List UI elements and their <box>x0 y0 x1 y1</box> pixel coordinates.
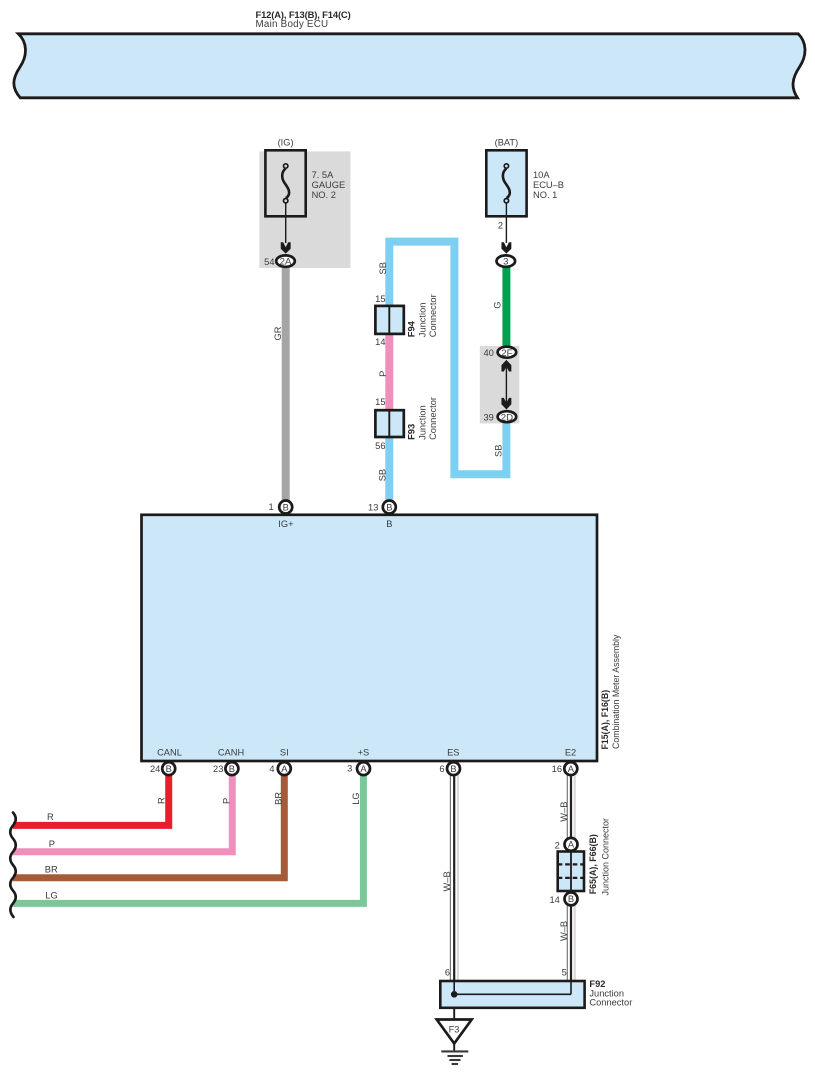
svg-text:GAUGE: GAUGE <box>312 180 346 190</box>
connector 2A pin 54 <box>264 255 295 267</box>
svg-text:P: P <box>222 798 232 804</box>
svg-text:R: R <box>157 797 167 804</box>
pin 6 B ES <box>439 762 460 775</box>
svg-text:B: B <box>229 764 235 774</box>
connector 2D pin 39 <box>483 411 516 423</box>
svg-text:39: 39 <box>483 412 493 422</box>
fuse (IG) gray panel <box>259 151 350 268</box>
ground F3 <box>437 1007 472 1064</box>
wire GR <box>282 265 290 503</box>
svg-text:A: A <box>568 840 575 850</box>
wire W-B from ES <box>442 775 458 994</box>
svg-text:2A: 2A <box>280 257 292 268</box>
svg-text:Junction: Junction <box>418 405 428 440</box>
svg-text:F93: F93 <box>406 424 416 440</box>
svg-text:W–B: W–B <box>559 921 569 941</box>
svg-text:B: B <box>386 519 392 529</box>
svg-text:R: R <box>47 812 54 822</box>
svg-text:5: 5 <box>562 967 567 977</box>
svg-text:SI: SI <box>280 747 289 757</box>
svg-text:E2: E2 <box>565 747 576 757</box>
svg-text:24: 24 <box>150 764 160 774</box>
svg-text:CANL: CANL <box>157 747 182 757</box>
svg-text:BR: BR <box>274 792 284 805</box>
svg-text:LG: LG <box>45 890 57 900</box>
svg-text:W–B: W–B <box>442 871 452 891</box>
svg-text:SB: SB <box>494 445 504 457</box>
svg-text:IG+: IG+ <box>278 519 293 529</box>
svg-text:P: P <box>378 371 388 377</box>
wire R <box>13 775 169 825</box>
svg-text:3: 3 <box>503 257 508 268</box>
svg-text:15: 15 <box>375 397 385 407</box>
svg-text:(BAT): (BAT) <box>495 137 519 147</box>
svg-text:Connector: Connector <box>428 397 438 440</box>
svg-text:A: A <box>360 764 367 774</box>
junction connector F92 <box>440 967 632 1008</box>
bottom pin labels inside box <box>157 747 576 757</box>
wire P bottom <box>13 775 232 852</box>
svg-text:13: 13 <box>368 503 378 513</box>
wire P between F94 and F93 <box>385 332 393 412</box>
svg-text:15: 15 <box>375 294 385 304</box>
svg-text:Combination Meter Assembly: Combination Meter Assembly <box>611 634 621 749</box>
svg-text:4: 4 <box>269 764 274 774</box>
junction connector F65(A) F66(B) <box>549 818 610 905</box>
svg-text:Junction Connector: Junction Connector <box>601 818 611 896</box>
svg-text:2F: 2F <box>501 348 512 359</box>
svg-text:B: B <box>386 502 392 512</box>
fuse (BAT) 10A ECU-B NO.1 <box>486 137 564 243</box>
svg-text:Main Body ECU: Main Body ECU <box>256 19 329 30</box>
svg-text:ES: ES <box>447 747 459 757</box>
svg-text:F65(A), F66(B): F65(A), F66(B) <box>588 834 598 894</box>
svg-text:14: 14 <box>549 895 559 905</box>
svg-text:W–B: W–B <box>559 802 569 822</box>
wire W-B from E2 <box>559 775 575 994</box>
svg-text:2: 2 <box>498 221 503 231</box>
svg-text:10A: 10A <box>533 170 550 180</box>
svg-text:F3: F3 <box>449 1025 460 1035</box>
pin 16 A E2 <box>552 762 578 775</box>
svg-text:P: P <box>49 839 55 849</box>
svg-text:LG: LG <box>351 792 361 804</box>
svg-text:Junction: Junction <box>418 303 428 338</box>
svg-text:CANH: CANH <box>218 747 244 757</box>
svg-text:14: 14 <box>375 337 385 347</box>
arrow into connector 2A <box>281 242 291 253</box>
svg-text:(IG): (IG) <box>278 137 294 147</box>
svg-text:+S: +S <box>358 748 370 758</box>
connector panel 2F/2D gray <box>480 346 520 423</box>
svg-text:6: 6 <box>445 967 450 977</box>
svg-text:6: 6 <box>439 764 444 774</box>
svg-text:A: A <box>568 764 575 774</box>
svg-text:SB: SB <box>378 262 388 274</box>
svg-text:GR: GR <box>273 326 283 340</box>
svg-text:Connector: Connector <box>428 294 438 337</box>
wire G <box>502 265 510 352</box>
connector 2F pin 40 <box>483 347 516 359</box>
pin 3 A +S <box>347 762 370 775</box>
title Main Body ECU designators <box>256 9 351 30</box>
svg-text:Connector: Connector <box>589 998 632 1008</box>
svg-text:54: 54 <box>264 257 274 267</box>
wire SB from 2D to F94 <box>389 242 506 475</box>
svg-text:SB: SB <box>377 469 387 481</box>
svg-text:16: 16 <box>552 764 562 774</box>
svg-text:7. 5A: 7. 5A <box>312 170 335 180</box>
fuse (IG) 7.5A GAUGE NO.2 <box>265 137 345 243</box>
svg-text:F94: F94 <box>406 320 416 337</box>
svg-text:2D: 2D <box>501 412 513 423</box>
svg-text:ECU–B: ECU–B <box>533 180 564 190</box>
junction connector F94 <box>375 294 438 347</box>
svg-text:B: B <box>283 502 289 512</box>
junction connector F93 <box>375 397 438 451</box>
svg-text:F15(A), F16(B): F15(A), F16(B) <box>600 690 610 750</box>
svg-text:BR: BR <box>45 864 58 874</box>
combination meter assembly box <box>142 515 622 761</box>
svg-text:B: B <box>166 764 172 774</box>
pin 23 B CANH <box>213 762 238 775</box>
svg-text:B: B <box>450 764 456 774</box>
connector 3 <box>497 255 516 267</box>
svg-text:NO. 1: NO. 1 <box>533 190 557 200</box>
wire LG <box>13 775 363 903</box>
svg-text:23: 23 <box>213 764 223 774</box>
double arrow between 2F and 2D <box>501 360 511 410</box>
svg-text:56: 56 <box>375 441 385 451</box>
pin 13 B <box>368 501 396 529</box>
svg-text:A: A <box>281 764 288 774</box>
svg-text:B: B <box>568 894 574 904</box>
svg-text:3: 3 <box>347 764 352 774</box>
wire SB from F93 to pin 13 <box>385 435 393 503</box>
svg-text:2: 2 <box>555 840 560 850</box>
svg-text:1: 1 <box>269 502 274 512</box>
pin 4 A SI <box>269 762 290 775</box>
svg-text:G: G <box>492 302 502 309</box>
svg-text:NO. 2: NO. 2 <box>312 190 336 200</box>
svg-text:40: 40 <box>483 348 493 358</box>
torn wire ends squiggle <box>10 813 16 918</box>
main body ECU band <box>14 34 805 98</box>
pin 24 B CANL <box>150 762 175 775</box>
pin 1 B IG+ <box>269 501 294 529</box>
wire BR <box>13 775 284 878</box>
arrow into connector 3 <box>501 242 511 253</box>
